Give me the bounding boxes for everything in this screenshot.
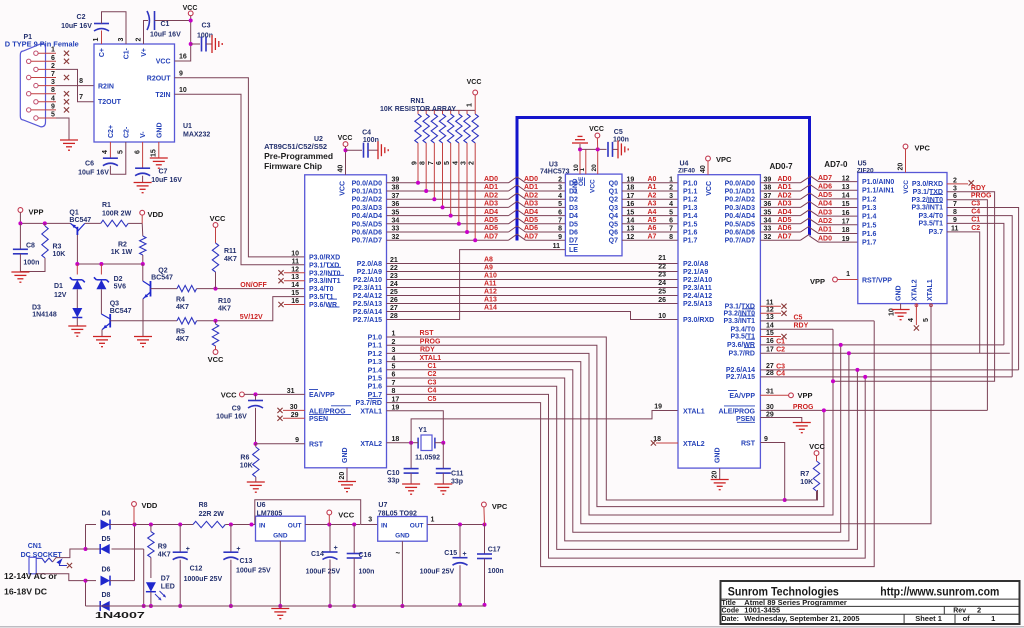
svg-text:RST: RST <box>420 330 435 337</box>
svg-text:P2.5/A13: P2.5/A13 <box>683 301 712 308</box>
svg-text:P1.4: P1.4 <box>683 213 698 220</box>
svg-text:RST/VPP: RST/VPP <box>862 278 892 285</box>
svg-text:Q0: Q0 <box>609 180 618 187</box>
svg-text:IN: IN <box>259 523 266 530</box>
svg-text:12: 12 <box>291 266 299 273</box>
wire node to D1 <box>76 264 78 275</box>
page bottom border <box>0 626 1024 628</box>
U4 XTAL2 no-connect <box>651 440 678 445</box>
svg-text:AD7-0: AD7-0 <box>824 160 848 169</box>
node 5V/12V wire to U2 P3.5/T1 <box>197 297 305 323</box>
svg-text:4K7: 4K7 <box>176 304 189 311</box>
svg-text:P0.2/AD2: P0.2/AD2 <box>725 197 755 204</box>
svg-text:P1.1/AIN1: P1.1/AIN1 <box>862 188 894 195</box>
svg-text:2: 2 <box>51 63 55 70</box>
svg-text:C2: C2 <box>971 225 980 232</box>
net label C3 at U5 <box>971 201 980 208</box>
junction dots RN1 to AD bus <box>416 181 477 242</box>
ground at R6 <box>247 482 265 492</box>
svg-text:A7: A7 <box>648 233 657 240</box>
capacitor C11 33p <box>436 443 464 486</box>
svg-text:+: + <box>334 545 338 552</box>
svg-text:C5: C5 <box>614 129 623 136</box>
connector CN1 DC SOCKET <box>21 543 67 574</box>
svg-text:VCC: VCC <box>809 442 825 451</box>
wire crystal node to U4 XTAL1 <box>411 411 678 443</box>
svg-text:1000uF 25V: 1000uF 25V <box>184 576 223 583</box>
svg-text:6: 6 <box>669 218 673 225</box>
svg-text:AD5: AD5 <box>778 217 792 224</box>
op-amp U1 MAX232 <box>94 44 210 142</box>
transistor Q1 BC547 <box>69 210 91 236</box>
svg-text:P2.3/A11: P2.3/A11 <box>353 285 382 292</box>
capacitor C8 100n <box>13 223 39 266</box>
svg-text:VPC: VPC <box>492 502 508 511</box>
wire net XTAL1 loop U2 to right side <box>387 304 932 524</box>
wire CN1 to bridge AC1 <box>53 549 86 562</box>
svg-text:C2: C2 <box>77 14 86 21</box>
svg-text:P2.2/A10: P2.2/A10 <box>353 277 382 284</box>
net label C3 at U4 <box>776 363 785 370</box>
svg-text:13: 13 <box>766 314 774 321</box>
svg-text:14: 14 <box>842 193 850 200</box>
svg-text:P3.4/T0: P3.4/T0 <box>730 326 755 333</box>
svg-text:2: 2 <box>669 185 673 192</box>
wire Q2 emitter to ground <box>142 299 144 336</box>
svg-text:Q7: Q7 <box>609 238 618 245</box>
wire Q3 emitter to ground <box>101 330 103 337</box>
svg-text:1N4148: 1N4148 <box>32 312 57 319</box>
net label C2 at U5 <box>971 225 980 232</box>
wire VCC to C4 <box>346 149 363 151</box>
svg-text:D6: D6 <box>102 567 111 574</box>
svg-text:30: 30 <box>766 404 774 411</box>
wire U5 pin10 GND <box>889 304 901 316</box>
svg-text:P2.2/A10: P2.2/A10 <box>683 277 712 284</box>
svg-text:15: 15 <box>842 201 850 208</box>
power VCC at U1 <box>183 5 198 16</box>
svg-text:16: 16 <box>766 338 774 345</box>
svg-text:D6: D6 <box>569 230 578 237</box>
svg-text:C16: C16 <box>359 552 372 559</box>
svg-text:1: 1 <box>431 517 435 524</box>
ground at U4 PSEN <box>793 423 811 433</box>
svg-text:P1.6: P1.6 <box>862 231 877 238</box>
wire R3 bottom to ground node <box>20 258 45 272</box>
wire net C5 U4 P3.3/INT1 <box>760 320 874 322</box>
svg-text:EA/VPP: EA/VPP <box>729 393 755 400</box>
wire C1 to VCC node <box>155 20 191 22</box>
svg-text:12: 12 <box>842 175 850 182</box>
svg-text:7: 7 <box>669 226 673 233</box>
svg-text:P1.3: P1.3 <box>368 359 383 366</box>
svg-text:P2.0/A8: P2.0/A8 <box>683 261 708 268</box>
svg-text:4K7: 4K7 <box>158 552 171 559</box>
net label ON/OFF <box>240 282 267 289</box>
net labels AD7-AD0 at U5 <box>818 175 832 242</box>
svg-text:24: 24 <box>658 280 666 287</box>
svg-text:VCC: VCC <box>340 181 347 196</box>
ground at D3 <box>68 326 86 336</box>
svg-text:7: 7 <box>953 201 957 208</box>
svg-text:12: 12 <box>766 307 774 314</box>
U2 P2 pin numbers 21-28 <box>390 257 398 320</box>
bus name AD0-7 <box>770 162 794 171</box>
svg-text:R2: R2 <box>118 242 127 249</box>
bus exits to U5 P1 pins <box>810 176 858 242</box>
wire U1 pin2 to C1 <box>144 21 149 45</box>
wire U1 R2OUT to U2 P3.0/RXD <box>175 78 305 257</box>
net labels RST PROG RDY XTAL1 C1-C5 <box>420 330 442 403</box>
power VCC at U3 <box>589 126 604 149</box>
svg-text:P0.4/AD4: P0.4/AD4 <box>352 213 382 220</box>
svg-text:of: of <box>963 614 971 623</box>
wire ground rail <box>86 605 485 607</box>
svg-text:P1.7: P1.7 <box>683 238 698 245</box>
svg-text:D8: D8 <box>102 592 111 599</box>
svg-text:P3.0/RXD: P3.0/RXD <box>912 181 943 188</box>
svg-text:P1.1: P1.1 <box>683 189 698 196</box>
svg-text:20: 20 <box>897 163 904 171</box>
svg-text:P0.5/AD5: P0.5/AD5 <box>352 221 382 228</box>
svg-text:18: 18 <box>842 227 850 234</box>
wire D6 cathode up to rowA <box>133 523 137 581</box>
svg-text:VPC: VPC <box>716 155 732 164</box>
wires U3 Q0-Q7 to U4 P1.0-P1.7 <box>622 183 678 240</box>
wire U6 GND to rail <box>278 541 282 608</box>
U2 PSEN no-connect <box>277 416 304 421</box>
svg-text:31: 31 <box>766 389 774 396</box>
svg-text:P1.7: P1.7 <box>862 240 877 247</box>
power VPP port <box>18 208 44 217</box>
svg-text:P2.6/A14: P2.6/A14 <box>726 367 755 374</box>
svg-text:C11: C11 <box>451 471 464 478</box>
power VCC at R10 <box>208 350 224 364</box>
wire C15 to gnd rail <box>458 565 462 607</box>
svg-text:C2: C2 <box>428 371 437 378</box>
svg-text:GND: GND <box>896 285 903 301</box>
svg-text:U2: U2 <box>314 136 323 143</box>
svg-text:Q3: Q3 <box>609 205 618 212</box>
wire U6 OUT to VCC <box>305 523 360 527</box>
transistor Q3 BC547 <box>101 301 131 330</box>
power VCC at R11 <box>210 214 226 227</box>
wire U2 XTAL1 to crystal <box>387 411 444 443</box>
svg-text:P3.6/WR: P3.6/WR <box>727 342 755 349</box>
svg-text:AD1: AD1 <box>484 184 498 191</box>
svg-text:P0.0/AD0: P0.0/AD0 <box>352 180 382 187</box>
U5 XTAL2 no-connect <box>908 304 919 331</box>
svg-text:AD4: AD4 <box>484 209 498 216</box>
svg-text:11: 11 <box>292 258 300 265</box>
wire D3 to ground <box>76 318 78 326</box>
net labels AD0-AD7 at U4 <box>778 176 792 240</box>
U3 D pin numbers <box>553 177 563 251</box>
svg-text:BC547: BC547 <box>110 308 132 315</box>
net label C5 at U4 <box>794 314 803 321</box>
svg-text:C3: C3 <box>776 363 785 370</box>
ground at U5 pin10 <box>892 310 910 320</box>
svg-text:P2.3/A11: P2.3/A11 <box>683 285 712 292</box>
capacitor C4 100n <box>362 130 379 158</box>
svg-text:P1.5: P1.5 <box>368 376 383 383</box>
svg-text:10uF 16V: 10uF 16V <box>150 32 181 39</box>
svg-text:C12: C12 <box>190 566 203 573</box>
wire R10 to VCC <box>215 346 217 350</box>
svg-text:D TYPE 9 Pin Female: D TYPE 9 Pin Female <box>5 42 79 49</box>
svg-text:C7: C7 <box>159 169 168 176</box>
svg-text:7: 7 <box>558 218 562 225</box>
svg-text:XTAL1: XTAL1 <box>360 408 382 415</box>
svg-text:3: 3 <box>368 517 372 524</box>
capacitor C9 10uF 16V <box>216 394 263 420</box>
capacitor C17 100n <box>477 525 504 576</box>
svg-text:AD6: AD6 <box>484 225 498 232</box>
svg-text:9: 9 <box>179 70 183 77</box>
resistor R9 4K7 <box>148 525 171 559</box>
svg-text:22: 22 <box>658 263 666 270</box>
wire A14 from U2 to U4 P3.0/RXD <box>387 312 679 320</box>
svg-text:8: 8 <box>669 234 673 241</box>
svg-text:P3.2/INT0: P3.2/INT0 <box>723 311 755 318</box>
ground at U4 pin20 <box>711 480 729 490</box>
svg-text:AD7: AD7 <box>524 233 538 240</box>
svg-text:http://www.sunrom.com: http://www.sunrom.com <box>880 587 999 599</box>
svg-text:GND: GND <box>342 447 349 463</box>
svg-text:OUT: OUT <box>288 523 302 530</box>
svg-text:P2.7/A15: P2.7/A15 <box>353 317 382 324</box>
svg-text:17: 17 <box>627 193 635 200</box>
svg-text:P2.6/A14: P2.6/A14 <box>353 309 382 316</box>
chip U4 ZIF40 socket <box>678 161 760 469</box>
svg-text:10K RESISTOR ARRAY: 10K RESISTOR ARRAY <box>380 106 456 113</box>
net label PROG at U5 <box>971 193 992 200</box>
svg-text:AD7: AD7 <box>818 175 832 182</box>
svg-text:VDD: VDD <box>148 210 164 219</box>
svg-text:38: 38 <box>764 185 772 192</box>
resistor R11 4K7 <box>212 227 237 272</box>
svg-text:Q1: Q1 <box>609 189 618 196</box>
wire U1 pin6 to C7 <box>142 142 144 168</box>
wire C6 to U1 pin5 <box>110 142 125 174</box>
svg-text:P0.2/AD2: P0.2/AD2 <box>352 197 382 204</box>
svg-text:P3.5/T1: P3.5/T1 <box>309 294 334 301</box>
svg-text:VCC: VCC <box>183 5 198 12</box>
svg-text:AD0: AD0 <box>524 176 538 183</box>
svg-text:C2: C2 <box>776 347 785 354</box>
svg-text:P3.5/T1: P3.5/T1 <box>918 221 943 228</box>
node ON/OFF wire to U2 P3.4/T0 <box>197 287 305 291</box>
svg-text:Sheet 1: Sheet 1 <box>915 614 942 623</box>
svg-text:ZIF40: ZIF40 <box>678 168 695 175</box>
diode D2 5V6 zener <box>94 276 126 314</box>
svg-text:EA/VPP: EA/VPP <box>309 392 335 399</box>
svg-text:Q2: Q2 <box>609 197 618 204</box>
wire Q3 base to R5 <box>110 320 177 322</box>
wires U4 P0 to bus <box>760 183 800 240</box>
LED D7 <box>146 557 175 600</box>
svg-text:3: 3 <box>953 185 957 192</box>
svg-text:AD6: AD6 <box>524 225 538 232</box>
svg-text:7: 7 <box>428 161 435 165</box>
svg-text:6: 6 <box>135 150 142 154</box>
power VCC at U2 pin40 <box>338 135 353 147</box>
svg-text:P2.0/A8: P2.0/A8 <box>357 261 382 268</box>
wire C16 to gnd rail <box>352 558 356 608</box>
svg-text:3: 3 <box>461 161 468 165</box>
svg-text:VPP: VPP <box>798 391 813 400</box>
wire U1 T2IN to U2 P3.1/TXD <box>175 94 305 264</box>
svg-text:GND: GND <box>273 533 288 540</box>
svg-text:A6: A6 <box>648 225 657 232</box>
svg-text:3: 3 <box>558 185 562 192</box>
wire C14 to gnd rail <box>328 560 332 609</box>
wire main rail VDD <box>135 523 194 527</box>
svg-text:AD0-7: AD0-7 <box>770 162 794 171</box>
svg-text:VPP: VPP <box>810 277 825 286</box>
U4 P3.2/INT0 no-connect <box>760 311 786 316</box>
svg-text:R8: R8 <box>199 502 208 509</box>
svg-text:9: 9 <box>412 161 419 165</box>
svg-text:LM7805: LM7805 <box>257 510 283 517</box>
wire C12 to gnd rail <box>178 560 182 608</box>
ground at C4 <box>378 141 388 159</box>
svg-text:33p: 33p <box>451 479 463 486</box>
svg-text:15: 15 <box>291 290 299 297</box>
svg-text:33p: 33p <box>388 478 400 485</box>
svg-text:C4: C4 <box>776 370 785 377</box>
svg-text:AD1: AD1 <box>524 184 538 191</box>
pin name underlines U2 <box>328 267 382 398</box>
svg-text:20: 20 <box>712 471 719 479</box>
svg-text:100n: 100n <box>613 137 629 144</box>
svg-text:GND: GND <box>156 122 163 138</box>
U4 P3.5/T1 no-connect <box>760 334 786 339</box>
net label RDY at U5 <box>971 185 986 192</box>
svg-text:RST: RST <box>741 440 756 447</box>
svg-text:18: 18 <box>627 185 635 192</box>
svg-text:VPC: VPC <box>915 144 931 153</box>
svg-text:A2: A2 <box>648 192 657 199</box>
resistor R10 4K7 <box>212 298 231 346</box>
pin name underlines U5 <box>927 195 943 203</box>
svg-text:VCC: VCC <box>208 355 224 364</box>
svg-text:100uF 25V: 100uF 25V <box>236 568 271 575</box>
wire P1 pin5 to ground <box>56 118 69 140</box>
power VCC at U2 EA/VPP <box>221 391 245 400</box>
svg-text:9: 9 <box>953 217 957 224</box>
wire R11 to ON/OFF node <box>215 272 217 289</box>
svg-text:ZIF20: ZIF20 <box>857 167 874 174</box>
wire net RDY U5 P3.1/TXD <box>831 192 995 383</box>
net label C2 at U4 <box>776 347 785 354</box>
svg-text:P3.3/INT1: P3.3/INT1 <box>309 278 341 285</box>
wire bridge left column <box>84 525 88 607</box>
svg-text:C15: C15 <box>444 550 457 557</box>
svg-text:21: 21 <box>658 255 666 262</box>
svg-text:74HC573: 74HC573 <box>540 169 570 176</box>
svg-text:Y1: Y1 <box>418 427 427 434</box>
svg-text:20: 20 <box>591 164 598 172</box>
diode D5 1N4007 <box>86 536 144 554</box>
svg-text:10K: 10K <box>240 463 253 470</box>
U5 P3.0/RXD no-connect <box>947 180 974 185</box>
ground at U3 pin10 <box>572 136 588 149</box>
bus entries left of U3 <box>509 177 518 240</box>
svg-text:RDY: RDY <box>420 347 435 354</box>
wire net C2 U4 P3.7/RD <box>760 351 1009 355</box>
bus entries right spine left side <box>801 177 810 240</box>
ground at C10 <box>402 484 420 494</box>
svg-text:~: ~ <box>396 549 401 558</box>
svg-text:1: 1 <box>846 271 850 278</box>
svg-text:P1.4: P1.4 <box>862 214 877 221</box>
svg-text:U3: U3 <box>549 162 558 169</box>
capacitor C14 100uF 25V <box>306 525 341 576</box>
svg-text:A3: A3 <box>648 201 657 208</box>
svg-text:39: 39 <box>764 177 772 184</box>
svg-text:C4: C4 <box>971 209 980 216</box>
wire RST node to U2 pin9 <box>256 443 305 445</box>
svg-text:1K 1W: 1K 1W <box>111 249 133 256</box>
svg-text:P1.0/AIN0: P1.0/AIN0 <box>862 179 894 186</box>
resistor array RN1 10K <box>380 95 478 240</box>
svg-text:32: 32 <box>764 234 772 241</box>
svg-text:VCC: VCC <box>589 126 604 133</box>
wire R2 bottom to zener node <box>142 255 144 264</box>
diode D8 1N4007 <box>86 592 144 611</box>
svg-text:C4: C4 <box>428 388 437 395</box>
net label C1 at U4 <box>776 338 785 345</box>
svg-text:5: 5 <box>444 161 451 165</box>
U5 right pin numbers <box>951 177 959 232</box>
svg-text:VCC: VCC <box>338 135 353 142</box>
svg-text:8: 8 <box>420 161 427 165</box>
power VCC at R7 <box>809 442 825 456</box>
svg-text:XTAL1: XTAL1 <box>683 409 705 416</box>
svg-text:Q4: Q4 <box>609 213 618 220</box>
svg-text:2: 2 <box>558 177 562 184</box>
svg-text:XTAL1: XTAL1 <box>927 279 934 301</box>
svg-text:10: 10 <box>658 313 666 320</box>
svg-text:5V6: 5V6 <box>114 284 127 291</box>
svg-text:P1.0: P1.0 <box>368 335 383 342</box>
svg-text:GND: GND <box>715 447 722 463</box>
svg-text:R9: R9 <box>158 544 167 551</box>
svg-text:P1.1: P1.1 <box>368 343 383 350</box>
svg-text:P2.5/A13: P2.5/A13 <box>353 301 382 308</box>
wire C13 to gnd rail <box>229 560 233 608</box>
U2 left pin numbers <box>287 250 299 444</box>
wire net C3 U4 P2.6/A14 <box>760 368 1018 372</box>
svg-text:PSEN: PSEN <box>309 416 328 423</box>
power VPC at U4 pin40 <box>700 155 732 175</box>
title block Sunrom Technologies <box>721 581 1020 624</box>
svg-text:P3.7/RD: P3.7/RD <box>356 400 382 407</box>
svg-text:AD2: AD2 <box>484 192 498 199</box>
svg-text:3: 3 <box>669 193 673 200</box>
svg-text:PROG: PROG <box>793 404 814 411</box>
svg-text:P0.3/AD3: P0.3/AD3 <box>352 205 382 212</box>
ground at U1 pin15 <box>150 158 168 168</box>
svg-text:C4: C4 <box>362 130 371 137</box>
svg-text:6: 6 <box>436 161 443 165</box>
svg-text:ALE/PROG: ALE/PROG <box>718 408 755 415</box>
svg-text:V-: V- <box>140 131 147 138</box>
capacitor C10 33p <box>387 443 419 485</box>
svg-text:P2.1/A9: P2.1/A9 <box>357 269 382 276</box>
svg-text:6: 6 <box>51 55 55 62</box>
